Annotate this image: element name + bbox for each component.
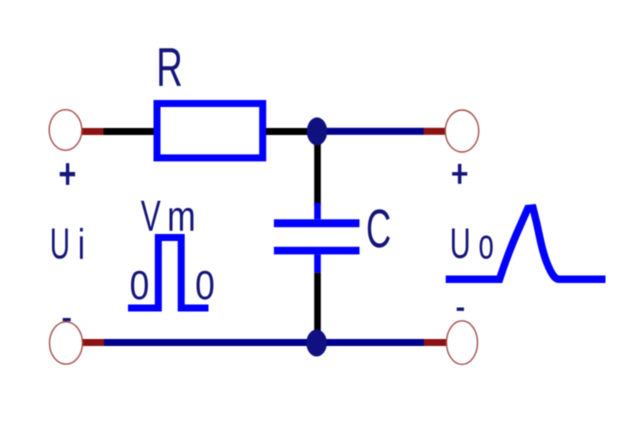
terminal: output - (bottom-right) — [447, 321, 478, 365]
wire: bottom-left red stub — [82, 339, 104, 346]
wire: output terminal red stub top-right — [424, 128, 446, 135]
plus sign (input) — [60, 163, 75, 185]
wire: node A to output (navy) — [317, 128, 424, 135]
label R — [159, 48, 181, 86]
bottom rail navy wire — [103, 339, 424, 346]
wire: input top black segment — [82, 128, 160, 135]
resistor R body — [157, 104, 263, 158]
label Ui — [52, 228, 83, 259]
capacitor C top lead (blue) — [314, 203, 321, 219]
capacitor C bottom plate — [274, 247, 360, 255]
label Vm — [141, 201, 194, 231]
plus sign (output) — [452, 164, 467, 184]
wire: resistor to node A (black) — [266, 128, 311, 135]
input pulse waveform — [128, 238, 209, 309]
wire: bottom-right red stub — [424, 339, 447, 346]
node B junction dot (bottom) — [306, 330, 327, 357]
minus sign (output) — [457, 308, 464, 311]
label C — [368, 209, 390, 247]
wire: vertical from node A to capacitor (black) — [314, 131, 321, 205]
label Uo — [452, 228, 493, 258]
minus sign (input) — [63, 318, 71, 321]
terminal: input + (top-left) — [49, 110, 82, 151]
wire: capacitor to node B (black) — [314, 273, 321, 333]
capacitor C top plate — [274, 219, 360, 227]
label 0 (right of pulse) — [197, 271, 214, 300]
wire: input terminal red stub top-left — [82, 128, 104, 135]
terminal: output + (top-right) — [445, 110, 478, 152]
label 0 (left of pulse) — [131, 271, 148, 300]
node A junction dot (top) — [307, 117, 327, 145]
capacitor C bottom lead (blue) — [314, 254, 321, 272]
output waveform (exponential pulse) — [446, 208, 606, 279]
terminal: input - (bottom-left) — [50, 322, 83, 364]
